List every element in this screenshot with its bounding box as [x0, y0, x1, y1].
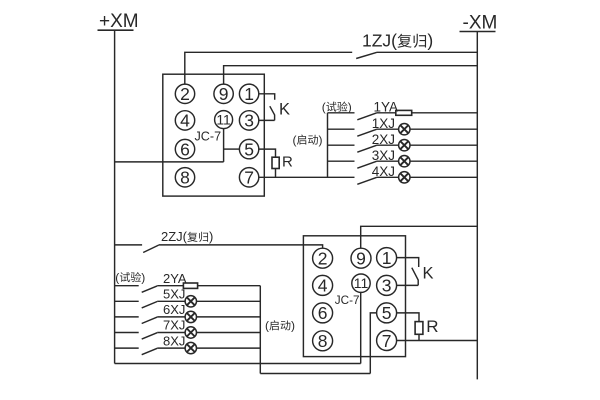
wire U2 pin5 left and down	[370, 313, 376, 374]
U1 pin 3	[239, 111, 258, 131]
switch 1ZJ reset blade	[356, 52, 376, 58]
wire 4XJ blade to lamp	[377, 176, 399, 178]
svg-text:+XM: +XM	[99, 11, 139, 32]
wire 1YA blade to fuse	[377, 112, 396, 114]
wire lamp 8XJ to bank2 common	[197, 347, 261, 349]
svg-text:K: K	[279, 101, 290, 119]
wire bank1 stub row 3XJ	[328, 160, 355, 162]
svg-text:7XJ: 7XJ	[163, 318, 185, 333]
label 4XJ	[372, 164, 395, 179]
lamp 6XJ	[185, 311, 196, 322]
svg-text:1ZJ(: 1ZJ(	[362, 31, 397, 51]
wire bank2 stub row 6XJ	[115, 316, 139, 318]
wire U1 pin3 to contact K	[259, 119, 275, 121]
wire 2YA blade to fuse	[157, 285, 183, 287]
svg-text:): )	[319, 133, 323, 147]
wire fuse 2YA to bank2 common	[198, 285, 261, 287]
switch 2YA blade	[142, 286, 158, 292]
svg-text:4XJ: 4XJ	[372, 164, 395, 179]
wire resistor R down to pin7 line	[418, 334, 420, 340]
svg-text:5XJ: 5XJ	[163, 287, 185, 302]
lamp 3XJ	[399, 156, 410, 167]
wire lamp 7XJ to bank2 common	[197, 332, 261, 334]
svg-text:3: 3	[382, 276, 392, 296]
wire 1XJ blade to lamp	[377, 128, 399, 130]
svg-text:2: 2	[180, 84, 190, 104]
resistor R (U1)	[272, 157, 279, 168]
switch 1XJ blade	[357, 129, 376, 136]
label (试验) bank2	[115, 270, 145, 284]
svg-text:2XJ: 2XJ	[372, 132, 395, 147]
svg-text:1: 1	[382, 248, 392, 268]
wire bank1 stub row 2XJ	[328, 144, 355, 146]
wire bank2 stub row 2YA	[115, 285, 139, 287]
svg-text:2: 2	[318, 249, 328, 269]
U2 pin 2	[313, 248, 333, 268]
svg-text:2YA: 2YA	[163, 271, 187, 286]
bus -XM label	[463, 13, 498, 34]
label JC-7 (U2)	[335, 294, 360, 307]
svg-text:JC-7: JC-7	[335, 294, 360, 307]
svg-text:3: 3	[244, 111, 254, 131]
svg-text:3XJ: 3XJ	[372, 148, 395, 163]
svg-text:2ZJ(: 2ZJ(	[161, 229, 188, 244]
svg-text:8XJ: 8XJ	[163, 333, 185, 348]
wire fuse 1YA to -XM bus	[412, 112, 478, 114]
svg-text:8: 8	[180, 168, 190, 188]
wire lamp 1XJ to -XM bus	[410, 128, 477, 130]
wire bank2 common to U2 pin5	[260, 373, 370, 375]
switch 8XJ blade	[142, 348, 158, 354]
relay U1 JC-7 outline	[163, 74, 264, 196]
svg-text:5: 5	[382, 303, 392, 323]
wire lamp 3XJ to -XM bus	[410, 160, 477, 162]
wire bank2 stub row 7XJ	[115, 332, 139, 334]
wire 6XJ blade to lamp	[157, 316, 185, 318]
lamp 4XJ	[399, 172, 410, 183]
svg-text:9: 9	[356, 249, 366, 269]
label 1YA	[374, 100, 399, 115]
wire +XM bus to U2 pin11 (bottom)	[115, 363, 361, 365]
svg-text:11: 11	[354, 275, 369, 291]
switch 1YA blade	[357, 113, 376, 120]
wire 8XJ blade to lamp	[157, 347, 185, 349]
fuse link 1YA	[396, 110, 412, 115]
label 5XJ	[163, 287, 185, 302]
U2 pin 5	[377, 303, 397, 323]
U1 pin 6	[175, 139, 194, 159]
bus -XM bar	[460, 31, 496, 33]
svg-text:): )	[141, 270, 145, 284]
label (启动) bank1	[293, 133, 323, 147]
svg-text:11: 11	[216, 112, 231, 128]
wire U2 pin3 to contact K	[397, 284, 419, 286]
label 8XJ	[163, 333, 185, 348]
svg-text:R: R	[426, 317, 438, 336]
wire U2 pin1 to contact K	[397, 258, 419, 267]
U2 pin 4	[313, 275, 333, 295]
contact K (U1) blade	[270, 106, 275, 120]
U2 pin 11	[352, 274, 370, 292]
svg-text:): )	[291, 319, 295, 333]
lamp 5XJ	[185, 296, 196, 307]
svg-text:-XM: -XM	[463, 13, 498, 34]
svg-text:(: (	[265, 319, 269, 333]
svg-text:7: 7	[382, 331, 392, 351]
wire lamp 5XJ to bank2 common	[197, 300, 261, 302]
wire 5XJ blade to lamp	[157, 300, 185, 302]
label 1ZJ(复归)	[362, 31, 433, 51]
wire 3XJ blade to lamp	[377, 160, 399, 162]
label K (U1)	[279, 101, 290, 119]
svg-text:7: 7	[244, 168, 254, 188]
label 1XJ	[372, 116, 395, 131]
svg-text:1: 1	[244, 84, 254, 104]
wire lamp 4XJ to -XM bus	[410, 176, 477, 178]
wire U1 pin1 to contact K	[259, 94, 275, 100]
svg-text:K: K	[423, 264, 434, 282]
U1 pin 5	[239, 139, 258, 159]
bus +XM vertical wire	[114, 30, 116, 363]
svg-text:8: 8	[318, 331, 328, 351]
svg-text:1YA: 1YA	[374, 100, 399, 115]
wire U1 pin9 to -XM bus	[224, 66, 478, 84]
bank1 common vertical wire	[327, 113, 329, 178]
lamp 2XJ	[399, 140, 410, 151]
label (启动) bank2	[265, 319, 295, 333]
wire 2XJ blade to lamp	[377, 144, 399, 146]
wire 2ZJ switch to U2 pin2	[159, 245, 323, 248]
svg-text:(: (	[322, 100, 326, 114]
svg-text:JC-7: JC-7	[195, 129, 222, 143]
wire bank2 stub row 8XJ	[115, 347, 139, 349]
wire bank1 stub row 1YA	[328, 112, 355, 114]
contact K (U2) blade	[412, 268, 418, 286]
bank2 common vertical wire	[259, 286, 261, 374]
wire resistor R down to pin7 line	[275, 169, 277, 178]
switch 7XJ blade	[142, 333, 158, 339]
U1 pin 11	[215, 111, 233, 129]
U2 pin 1	[377, 248, 397, 268]
svg-text:9: 9	[219, 84, 229, 104]
lamp 8XJ	[185, 342, 196, 353]
switch 4XJ blade	[357, 177, 376, 184]
wire bank2 stub row 5XJ	[115, 300, 139, 302]
label 3XJ	[372, 148, 395, 163]
wire 7XJ blade to lamp	[157, 332, 185, 334]
switch 2ZJ reset blade	[143, 245, 158, 252]
label R (U2)	[426, 317, 438, 336]
U2 pin 8	[313, 331, 333, 351]
wire +XM bus to U1 pin11	[115, 161, 224, 163]
wire U1 pin7 to contact 4XJ	[259, 176, 355, 178]
U2 pin 3	[377, 275, 397, 295]
U1 pin 4	[175, 111, 194, 131]
wire lamp 6XJ to bank2 common	[197, 316, 261, 318]
wire U2 pin5 to resistor R	[397, 313, 419, 322]
svg-text:): )	[209, 229, 213, 244]
label JC-7 (U1)	[195, 129, 222, 143]
svg-text:): )	[427, 31, 433, 51]
U1 pin 8	[175, 168, 194, 188]
label 6XJ	[163, 302, 185, 317]
wire U2 pin7 to -XM bus	[397, 340, 478, 342]
svg-text:4: 4	[180, 111, 190, 131]
svg-text:4: 4	[318, 276, 328, 296]
wire U1 pin11 down	[223, 129, 225, 162]
svg-text:6XJ: 6XJ	[163, 302, 185, 317]
lamp 1XJ	[399, 124, 410, 135]
svg-text:(: (	[115, 270, 119, 284]
svg-text:R: R	[282, 153, 293, 170]
bus +XM label	[99, 11, 139, 32]
label R (U1)	[282, 153, 293, 170]
label 2ZJ(复归)	[161, 229, 213, 244]
wire U1 pin2 up to 1ZJ line	[185, 52, 352, 84]
U1 pin 9	[214, 84, 233, 104]
label K (U2)	[423, 264, 434, 282]
U2 pin 6	[313, 303, 333, 323]
lamp 7XJ	[185, 327, 196, 338]
U2 pin 7	[377, 331, 397, 351]
svg-text:1XJ: 1XJ	[372, 116, 395, 131]
svg-text:6: 6	[318, 303, 328, 323]
U2 pin 9	[351, 248, 371, 268]
wire +XM bus to 2ZJ switch	[115, 244, 143, 246]
resistor R (U2)	[415, 322, 423, 335]
wire U1 pin11 branch to pin5	[224, 148, 240, 150]
svg-text:6: 6	[180, 139, 190, 159]
svg-text:5: 5	[244, 139, 254, 159]
svg-text:(: (	[293, 133, 297, 147]
label 2XJ	[372, 132, 395, 147]
U1 pin 2	[175, 84, 194, 104]
wire U1 pin5 to resistor R	[259, 149, 276, 157]
svg-text:): )	[348, 100, 352, 114]
bus +XM bar	[98, 29, 134, 31]
wire lamp 2XJ to -XM bus	[410, 144, 477, 146]
wire U2 pin11 down	[360, 292, 362, 363]
U1 pin 7	[239, 168, 258, 188]
wire bank1 stub row 1XJ	[328, 128, 355, 130]
U1 pin 1	[239, 84, 258, 104]
switch 6XJ blade	[142, 317, 158, 323]
bus -XM vertical wire	[476, 32, 478, 380]
wire U2 pin9 to -XM bus	[361, 226, 478, 248]
switch 2XJ blade	[357, 145, 376, 152]
switch 5XJ blade	[142, 302, 158, 308]
label 2YA	[163, 271, 187, 286]
switch 3XJ blade	[357, 161, 376, 168]
wire 1ZJ switch to -XM bus	[377, 51, 478, 53]
label 7XJ	[163, 318, 185, 333]
fuse link 2YA	[183, 283, 197, 288]
relay U2 JC-7 outline	[303, 236, 405, 357]
label (试验) bank1	[322, 100, 352, 114]
